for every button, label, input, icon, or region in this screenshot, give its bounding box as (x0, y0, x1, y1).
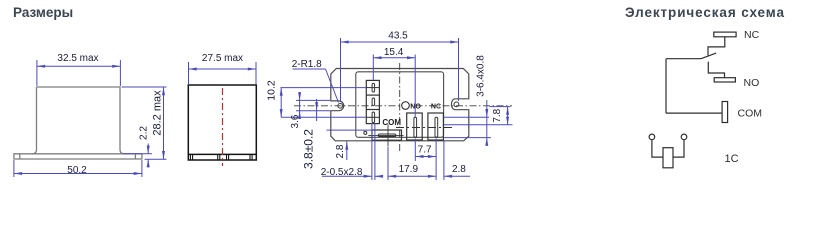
svg-text:3.8±0.2: 3.8±0.2 (302, 129, 316, 169)
ext COM center down (387, 147, 389, 180)
flange tab tick right (134, 154, 136, 159)
dim 43.5 ext lines (340, 38, 342, 102)
dim 27.5 extension lines (188, 62, 190, 84)
svg-text:32.5 max: 32.5 max (57, 53, 98, 64)
COM pin blade (378, 134, 396, 137)
coil terminal circle left (649, 134, 655, 140)
dim 28.2 extension lines (122, 86, 167, 88)
ext line coil pin 2 center (281, 116, 366, 118)
COM slot (372, 130, 402, 140)
svg-text:NC: NC (431, 104, 441, 111)
svg-text:3.6: 3.6 (290, 114, 301, 128)
svg-text:15.4: 15.4 (384, 47, 404, 58)
svg-text:Электрическая схема: Электрическая схема (625, 5, 785, 20)
svg-text:NC: NC (744, 29, 760, 41)
dim slot length line (507, 107, 509, 125)
dim 7.8 line (486, 100, 488, 146)
COM slot centerline horizontal (368, 134, 403, 136)
coil pin 2 crosshair (366, 116, 379, 118)
coil left lead (652, 140, 663, 157)
mounting flange side view (14, 154, 142, 159)
svg-text:2.8: 2.8 (452, 164, 466, 175)
coil pin column (366, 80, 379, 123)
horizontal centerline (294, 105, 512, 107)
dim 7.8 right ext lines (490, 106, 511, 108)
coil (663, 148, 673, 168)
svg-text:COM: COM (738, 108, 763, 120)
svg-text:28.2 max: 28.2 max (152, 90, 164, 136)
armature wiper (666, 53, 716, 59)
svg-text:50.2: 50.2 (67, 165, 87, 176)
svg-text:COM: COM (382, 118, 401, 127)
flange line front view (188, 153, 256, 155)
ext inner right down (443, 140, 445, 180)
NC contact bar (714, 32, 736, 37)
ext NO pin down (414, 139, 416, 162)
coil pin 2 (372, 112, 375, 123)
dim 3.6 line outside arrows (299, 92, 301, 119)
ext COM slot top left (327, 129, 373, 131)
red centerline front view (222, 88, 224, 166)
ext line coil pin 1 center (281, 87, 367, 89)
svg-text:3-6.4x0.8: 3-6.4x0.8 (476, 55, 487, 97)
dim 15.4 ext lines (372, 55, 374, 81)
dim 10.2 line (280, 88, 282, 118)
svg-text:Размеры: Размеры (13, 5, 73, 20)
pin row centerline dashes (396, 127, 452, 129)
dim 2.2 line with outside arrows (147, 144, 149, 154)
dim 15.4 line (373, 57, 415, 59)
ext slot bottom (296, 110, 330, 112)
svg-text:27.5 max: 27.5 max (202, 53, 243, 64)
small pilot circle (364, 131, 367, 134)
NO slot (407, 113, 423, 140)
ext NC pin down (435, 139, 437, 181)
dim 50.2 extension lines (13, 160, 15, 177)
NO contact bar (714, 78, 735, 82)
relay body front view (188, 85, 256, 160)
dim 32.5 line (37, 65, 121, 67)
dim 32.5 extension lines (36, 60, 38, 86)
blue dimensions of bottom view (280, 38, 513, 180)
NO NC indicator circle (402, 102, 410, 110)
svg-text:2.8: 2.8 (335, 144, 346, 158)
svg-text:NO: NO (744, 77, 760, 89)
pin ticks seen through flange (189, 154, 191, 160)
COM bar (722, 102, 728, 123)
dim 43.5 line (341, 41, 459, 43)
NO stub (708, 62, 724, 78)
dim 50.2 line (14, 173, 142, 175)
NC slot (428, 113, 444, 140)
svg-text:2-R1.8: 2-R1.8 (292, 59, 322, 70)
coil pin middle slot (372, 98, 375, 106)
dim 17.9 line (388, 175, 436, 177)
ext slot top (296, 99, 330, 101)
flange tab tick left (19, 154, 21, 159)
coil pin 1 crosshair (366, 87, 379, 89)
leader 2-R1.8 (326, 69, 339, 103)
inner case rect (356, 72, 444, 138)
NO pin blade (414, 117, 417, 137)
right mounting hole R1.8 (454, 102, 459, 107)
leader 2-R1.8 underline (293, 68, 326, 70)
svg-text:1C: 1C (725, 153, 739, 165)
left rail wire (665, 59, 667, 113)
COM slot centerline vertical (387, 125, 389, 147)
dim 27.5 line (189, 68, 257, 70)
relay body bottom view outline (331, 69, 469, 141)
COM wire (666, 112, 722, 114)
dim 28.2 line (163, 87, 165, 159)
dim 2.8 left vertical (346, 142, 348, 161)
svg-text:10.2: 10.2 (266, 80, 278, 101)
coil terminal circle right (681, 134, 687, 140)
svg-text:43.5: 43.5 (388, 31, 408, 42)
dim 2-0.5x2.8 line (322, 175, 372, 177)
NC stub (708, 37, 725, 56)
svg-text:NO: NO (410, 104, 421, 111)
NC pin blade (435, 117, 438, 137)
svg-text:17.9: 17.9 (399, 164, 419, 175)
dim 3.8 line (316, 99, 318, 121)
svg-text:7.7: 7.7 (418, 145, 432, 156)
svg-text:2-0.5x2.8: 2-0.5x2.8 (321, 167, 363, 178)
dim 7.7 line (415, 156, 436, 158)
coil right lead (673, 140, 684, 157)
svg-text:7.8: 7.8 (492, 108, 503, 122)
vertical centerline (399, 63, 401, 152)
svg-text:2.2: 2.2 (139, 126, 150, 140)
left mounting hole R1.8 (338, 103, 343, 108)
ext coil pin edges down (371, 123, 373, 180)
dim 2.8 line right (444, 175, 470, 177)
relay body side view (33, 87, 125, 154)
coil pin 1 (372, 83, 375, 92)
